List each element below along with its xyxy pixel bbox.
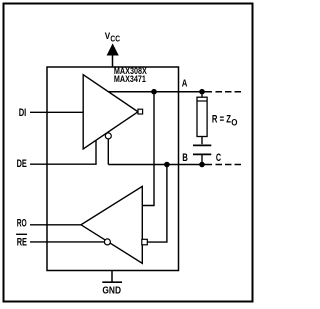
svg-text:RO: RO [17,217,27,229]
bubble receiver enable [104,239,110,245]
wire A line [108,91,212,93]
wire A to receiver input [142,92,154,206]
junction dot A to resistor [199,89,205,95]
pin square driver output A [138,109,143,114]
ground GND symbol [102,271,122,297]
IC U1 outline MAX308X/MAX3471 [47,67,179,271]
wire B to receiver input [148,165,167,243]
svg-text:A: A [182,79,188,90]
junction dot B to capacitor [199,162,205,168]
svg-text:C: C [216,152,221,164]
receiver buffer triangle U1B [81,186,142,263]
svg-text:R = Z: R = Z [212,113,231,125]
junction dot B to receiver [164,162,170,168]
wire DI input [30,111,84,113]
wire A dashed continuation [216,91,242,93]
svg-text:B: B [182,152,188,164]
resistor R termination [197,92,207,145]
wire RO output [30,224,81,226]
wire B dashed continuation [216,164,242,166]
wire B line [108,164,212,166]
bubble driver inverting output [105,133,111,139]
driver buffer triangle U1A [83,75,138,149]
power VCC symbol [105,31,120,68]
pin square receiver input B [142,239,148,245]
svg-text:MAX3471: MAX3471 [114,74,147,85]
wire driver inverting output to B line [107,139,109,165]
junction dot A to receiver [151,89,157,95]
svg-text:CC: CC [110,35,120,44]
wire DE input [30,140,96,164]
capacitor C termination [193,145,211,164]
wire RE input [30,241,104,243]
svg-text:DE: DE [17,158,27,170]
svg-text:RE: RE [17,237,27,249]
svg-text:DI: DI [19,107,27,119]
svg-text:O: O [231,117,237,127]
pin label RE with overline [16,234,27,248]
svg-text:GND: GND [102,285,121,296]
